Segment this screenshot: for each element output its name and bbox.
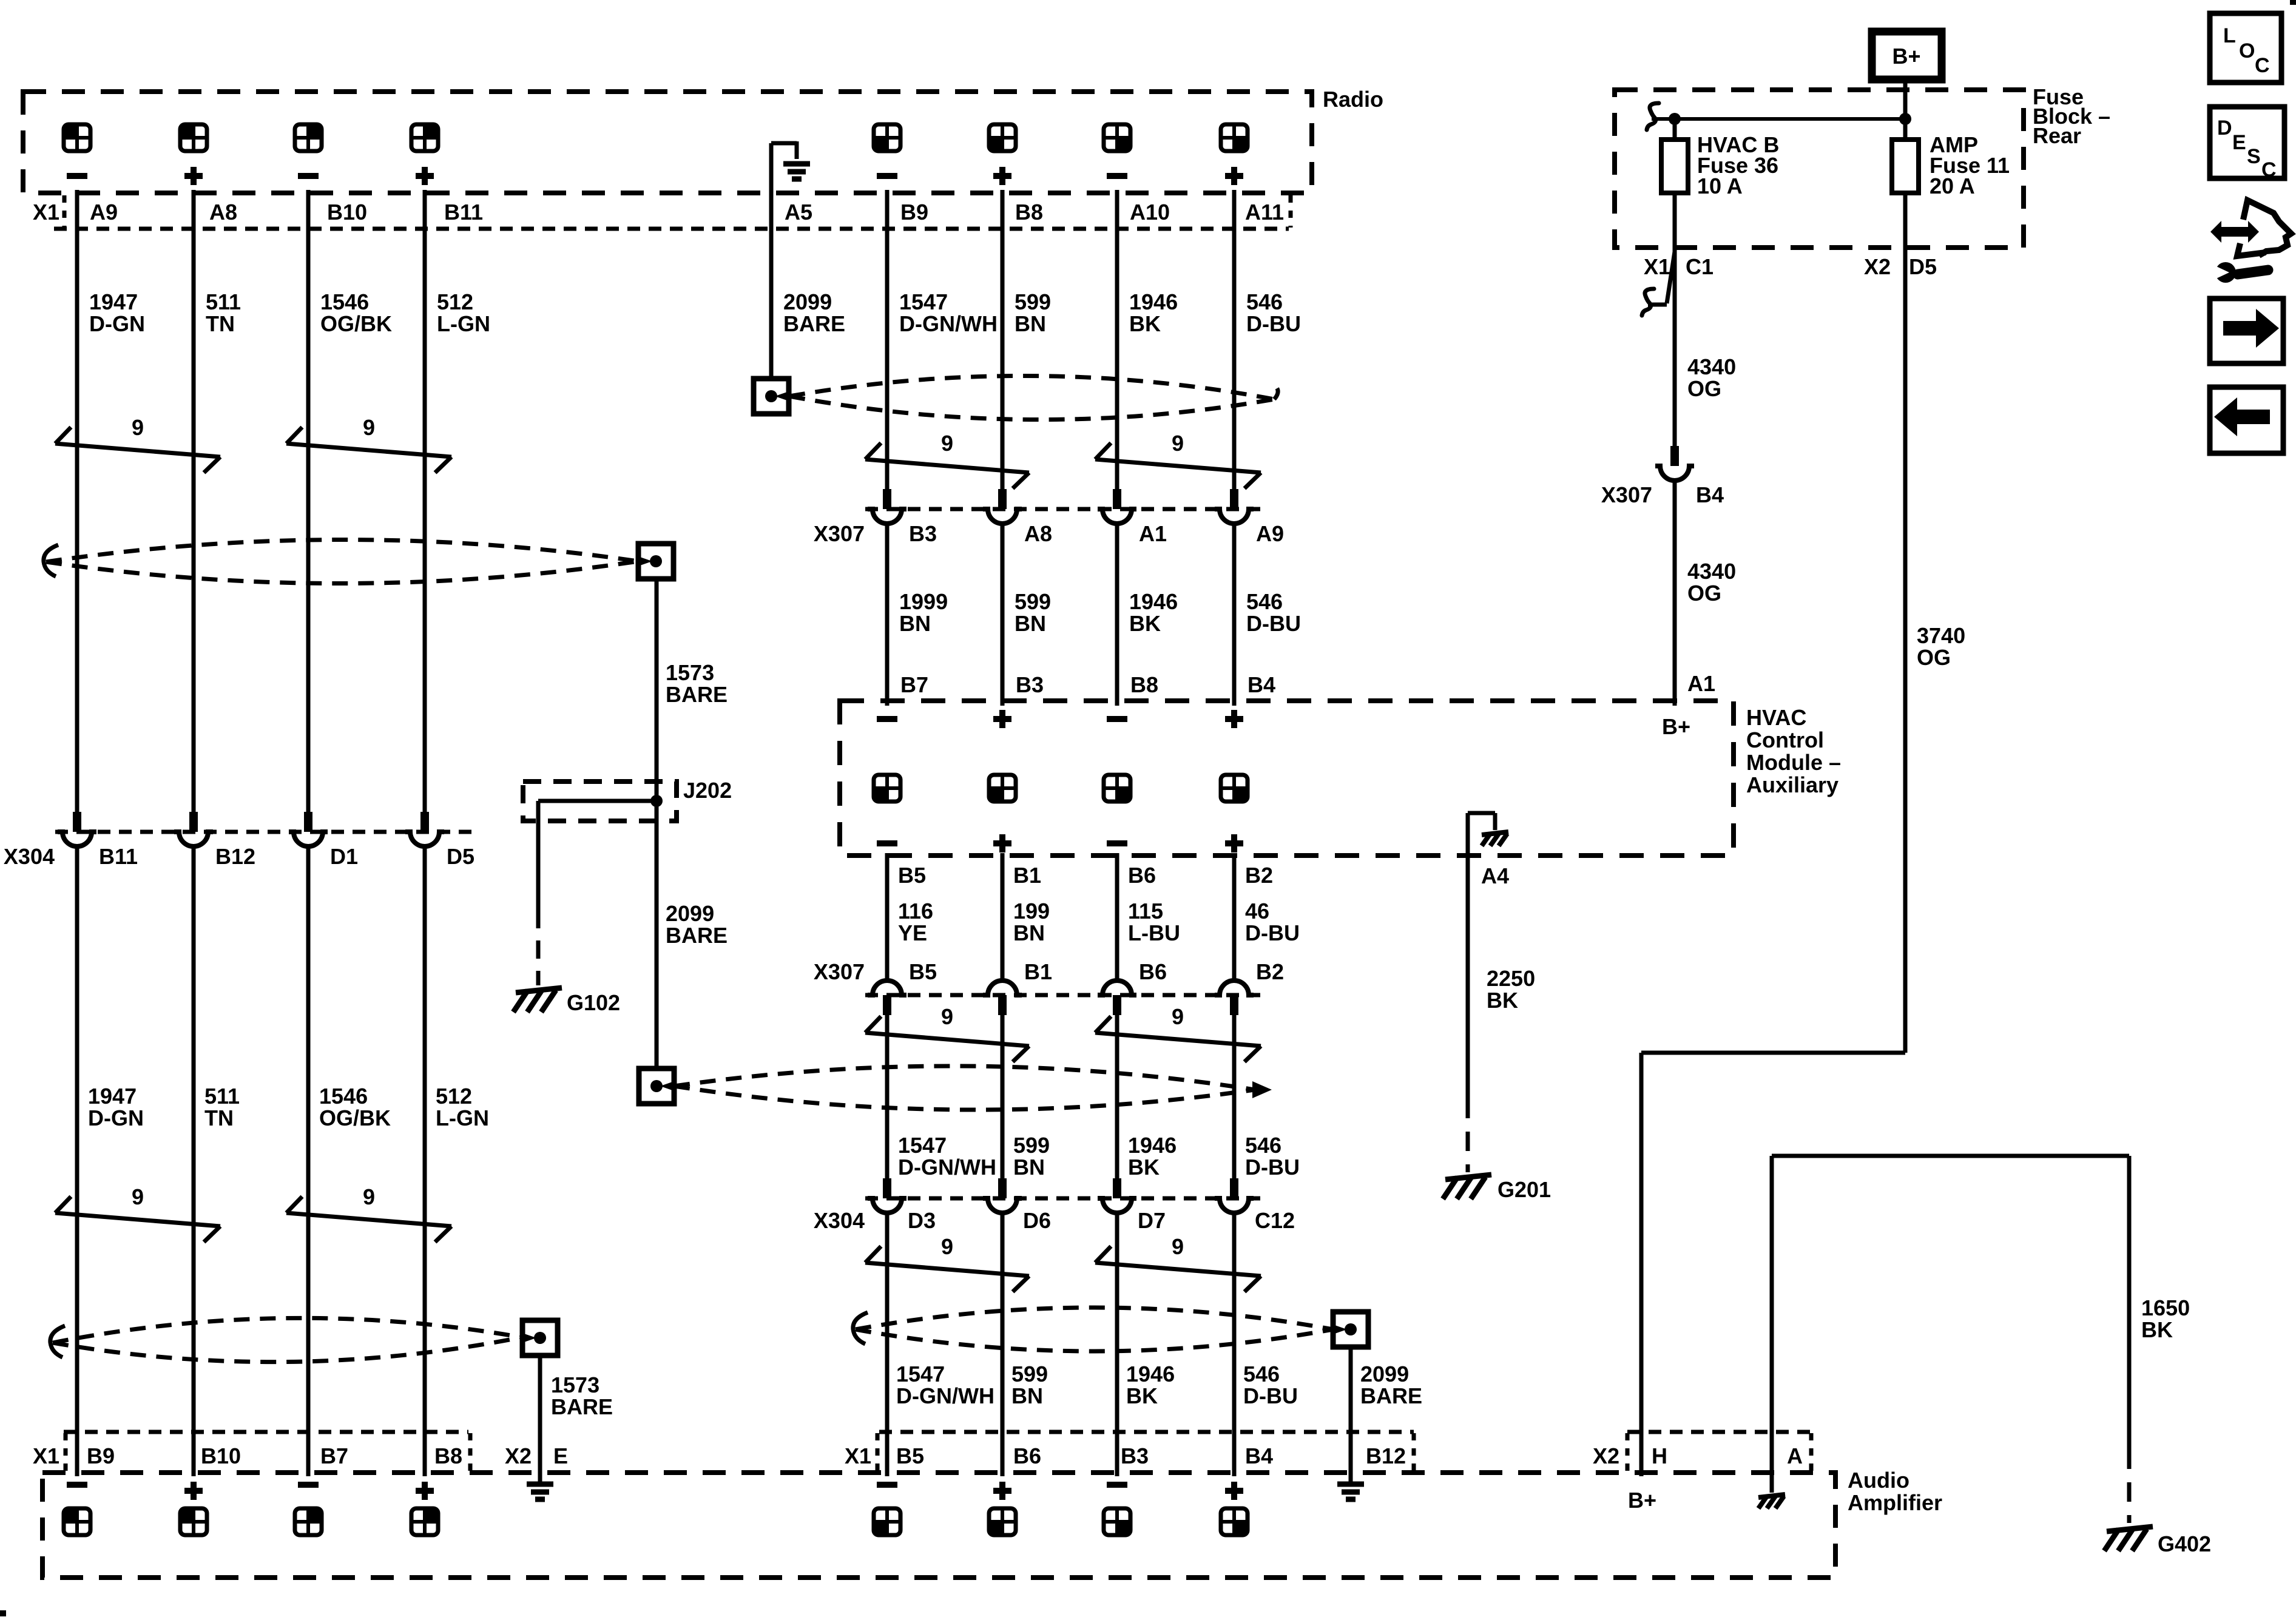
component box Radio (dashed): [23, 92, 1312, 193]
svg-text:1573: 1573: [551, 1372, 599, 1397]
wire mid col 1 seg4: [885, 1015, 890, 1178]
svg-text:O: O: [2239, 39, 2255, 62]
svg-text:BK: BK: [1126, 1383, 1158, 1408]
connector strip X1 (radio) dashed line: [54, 227, 1289, 231]
speaker icon amp L3: [295, 1508, 322, 1535]
wire left col 2 upper: [192, 190, 196, 812]
wire 2099 BARE to pin B12: [1349, 1347, 1353, 1482]
svg-text:OG: OG: [1917, 645, 1951, 670]
splice box with dot (2099 BARE): [754, 379, 789, 414]
wire mid col 2 seg2: [1001, 524, 1005, 706]
svg-text:199: 199: [1013, 899, 1050, 923]
speaker pin icon radio L1: [64, 124, 90, 151]
svg-text:20 A: 20 A: [1930, 174, 1975, 198]
icon wrench pointer: [2210, 221, 2259, 243]
svg-text:B8: B8: [1015, 200, 1043, 224]
svg-text:A8: A8: [209, 200, 237, 224]
svg-text:9: 9: [1172, 1234, 1184, 1259]
splice J202 box (dashed): [523, 781, 677, 821]
wire into HVAC B fuse: [1673, 119, 1677, 141]
svg-text:1946: 1946: [1129, 589, 1178, 614]
polarity - HVAC bottom 1: [877, 840, 897, 846]
inline connector X304 pin 2: [189, 812, 198, 832]
svg-text:B7: B7: [900, 672, 928, 697]
bundle count 9 mid row2 pair2: [1095, 1033, 1261, 1046]
speaker pin icon radio M4: [1221, 124, 1248, 151]
polarity + radio L4: [416, 173, 434, 179]
splice arrow into dot: [521, 1332, 536, 1343]
svg-text:D-GN: D-GN: [89, 311, 145, 336]
svg-text:X1: X1: [1644, 254, 1670, 279]
wire mid col 4 seg3: [1232, 853, 1237, 981]
svg-text:B6: B6: [1128, 863, 1156, 888]
svg-text:B5: B5: [909, 959, 937, 984]
svg-text:9: 9: [941, 1234, 953, 1259]
svg-text:Control: Control: [1746, 727, 1824, 752]
speaker icon amp M4: [1221, 1508, 1248, 1535]
page corner mark top-right: [2290, 0, 2296, 5]
svg-text:B6: B6: [1013, 1443, 1041, 1468]
svg-text:4340: 4340: [1687, 354, 1736, 379]
speaker pin icon radio L2: [180, 124, 207, 151]
svg-text:B8: B8: [434, 1443, 462, 1468]
svg-text:D-GN/WH: D-GN/WH: [899, 311, 998, 336]
svg-text:1999: 1999: [899, 589, 948, 614]
bus wire inside fuse block: [1652, 117, 1905, 121]
svg-text:A8: A8: [1024, 521, 1052, 546]
ellipse tip curl left row1: [44, 545, 58, 576]
svg-text:D-BU: D-BU: [1246, 611, 1301, 636]
svg-text:YE: YE: [898, 920, 927, 945]
svg-text:BK: BK: [2141, 1317, 2173, 1342]
svg-text:G402: G402: [2158, 1531, 2211, 1556]
svg-text:B3: B3: [1121, 1443, 1149, 1468]
svg-text:B9: B9: [900, 200, 928, 224]
svg-text:L-GN: L-GN: [437, 311, 490, 336]
svg-text:X1: X1: [33, 200, 59, 224]
svg-text:116: 116: [898, 899, 933, 923]
svg-text:599: 599: [1013, 1133, 1050, 1158]
wire left col 2 lower: [192, 846, 196, 1476]
polarity - HVAC top 3: [1107, 716, 1127, 722]
ellipse arrow tip mid row2: [1252, 1081, 1272, 1098]
svg-text:D6: D6: [1023, 1208, 1051, 1233]
wire left col 1 lower: [75, 846, 79, 1476]
twisted pair ellipse left row1: [46, 539, 638, 562]
svg-text:Audio: Audio: [1848, 1468, 1909, 1493]
svg-text:OG: OG: [1687, 581, 1721, 606]
inline connector X307 row1 pin 4: [1230, 489, 1238, 509]
chassis ground at amp pin A: [1770, 1476, 1774, 1493]
inline connector X304 pin 4: [420, 812, 429, 832]
bundle count 9 mid row3 pair2: [1095, 1263, 1261, 1276]
svg-text:L-GN: L-GN: [436, 1106, 489, 1130]
svg-text:1547: 1547: [899, 289, 948, 314]
svg-text:J202: J202: [683, 778, 732, 803]
radio internal ground at A5: [769, 143, 774, 194]
inline connector X307 dashed line row1: [865, 507, 1261, 511]
wire mid col 3 seg3: [1115, 853, 1119, 981]
inline connector X304 dashed line (mid): [865, 1197, 1261, 1201]
speaker icon amp M1: [874, 1508, 900, 1535]
svg-text:B5: B5: [898, 863, 926, 888]
component box Audio Amplifier (dashed): [42, 1473, 1835, 1578]
svg-text:9: 9: [941, 1004, 953, 1029]
svg-text:OG/BK: OG/BK: [320, 311, 392, 336]
polarity + radio L2: [184, 173, 203, 179]
svg-text:X2: X2: [1864, 254, 1891, 279]
svg-text:1946: 1946: [1129, 289, 1178, 314]
speaker icon HVAC 2: [989, 775, 1016, 802]
wire 1573 BARE (J202 column): [655, 579, 659, 1068]
svg-text:BARE: BARE: [551, 1394, 613, 1419]
svg-text:B9: B9: [87, 1443, 115, 1468]
inline connector X307 B4: [1670, 446, 1679, 466]
icon box arrow right: [2210, 299, 2283, 363]
svg-text:D-GN/WH: D-GN/WH: [898, 1155, 996, 1180]
speaker icon HVAC 1: [874, 775, 900, 802]
svg-text:C: C: [2255, 54, 2270, 77]
svg-text:9: 9: [363, 415, 375, 440]
svg-text:2099: 2099: [1360, 1362, 1409, 1386]
speaker icon amp M2: [989, 1508, 1016, 1535]
wire left col 1 upper: [75, 190, 79, 812]
wire mid col 4 seg4: [1232, 1015, 1237, 1178]
svg-text:1947: 1947: [89, 289, 138, 314]
connector strip X2 right cap: [1809, 1433, 1814, 1471]
svg-text:B8: B8: [1130, 672, 1158, 697]
polarity - HVAC bottom 3: [1107, 840, 1127, 846]
polarity + HVAC top 4: [1225, 716, 1243, 722]
svg-text:A10: A10: [1130, 200, 1170, 224]
inline connector X304 pin 1: [73, 812, 81, 832]
svg-text:X1: X1: [33, 1443, 59, 1468]
svg-text:2099: 2099: [783, 289, 832, 314]
splice box with dot (ellipse mid row2 left): [639, 1068, 674, 1104]
svg-text:A1: A1: [1687, 671, 1715, 696]
ellipse tip hook mid row1: [1272, 383, 1278, 399]
speaker icon HVAC 3: [1104, 775, 1130, 802]
svg-text:B+: B+: [1628, 1488, 1656, 1513]
svg-text:D-BU: D-BU: [1245, 920, 1300, 945]
svg-text:10 A: 10 A: [1697, 174, 1743, 198]
inline connector X307 row2 pin 2: [983, 981, 1022, 995]
svg-text:X304: X304: [814, 1208, 865, 1233]
bundle count 9 mid row1 pair2: [1095, 459, 1261, 473]
svg-text:TN: TN: [206, 311, 235, 336]
svg-text:1946: 1946: [1126, 1362, 1175, 1386]
svg-text:C: C: [2261, 158, 2277, 181]
svg-text:B4: B4: [1248, 672, 1275, 697]
svg-text:D5: D5: [1909, 254, 1937, 279]
svg-text:1650: 1650: [2141, 1295, 2190, 1320]
svg-text:E: E: [553, 1443, 568, 1468]
svg-text:BN: BN: [1011, 1383, 1043, 1408]
svg-text:2099: 2099: [666, 901, 714, 926]
page continuation curl (bus left end): [1647, 103, 1659, 130]
bundle count 9 mid row2 pair1: [865, 1033, 1029, 1046]
chassis ground G102: [516, 988, 562, 993]
svg-text:BARE: BARE: [783, 311, 845, 336]
inline connector X307 row2 pin 4: [1215, 981, 1254, 995]
bundle count 9 mid row3 pair1: [865, 1263, 1029, 1276]
svg-text:BN: BN: [1015, 611, 1046, 636]
svg-text:HVAC: HVAC: [1746, 705, 1806, 730]
svg-text:D-BU: D-BU: [1245, 1155, 1300, 1180]
svg-text:B3: B3: [1016, 672, 1044, 697]
svg-text:S: S: [2247, 145, 2261, 168]
ellipse tip curl left row2: [50, 1326, 65, 1357]
polarity - HVAC top 1: [877, 716, 897, 722]
inline connector X307 dashed line row2: [865, 993, 1261, 998]
connector strip X1 right cap: [1289, 195, 1293, 228]
wire mid col 2 seg4: [1001, 1015, 1005, 1178]
svg-text:A5: A5: [785, 200, 812, 224]
polarity - radio L3: [298, 173, 319, 179]
wire left col 3 upper: [306, 190, 311, 812]
svg-text:B11: B11: [444, 200, 483, 224]
svg-text:546: 546: [1246, 589, 1283, 614]
svg-text:B2: B2: [1245, 863, 1273, 888]
polarity - amp L1: [67, 1482, 87, 1488]
svg-text:B7: B7: [320, 1443, 348, 1468]
speaker icon amp L2: [180, 1508, 207, 1535]
polarity + HVAC bottom 4: [1225, 840, 1243, 846]
svg-text:D-GN: D-GN: [88, 1106, 144, 1130]
svg-text:BN: BN: [1013, 1155, 1045, 1180]
svg-text:1547: 1547: [898, 1133, 947, 1158]
svg-text:L-BU: L-BU: [1128, 920, 1180, 945]
earth ground at amp pin B12: [1337, 1482, 1364, 1487]
speaker pin icon radio M3: [1104, 124, 1130, 151]
connector strip X1 mid (amp) dashed line: [879, 1430, 1414, 1434]
splice box with dot (1573 BARE origin): [638, 544, 674, 579]
svg-text:B6: B6: [1139, 959, 1167, 984]
fuse AMP Fuse 11 20A: [1892, 140, 1919, 193]
inline connector X307 row2 pin 1: [868, 981, 907, 995]
svg-text:X304: X304: [4, 844, 55, 869]
wire 2250 BK to G201: [1466, 853, 1470, 1099]
splice box with dot (2099 BARE bottom): [1333, 1312, 1368, 1347]
svg-text:E: E: [2232, 131, 2246, 154]
page corner mark bottom-left: [0, 1610, 6, 1616]
inline connector X304 mid pin 1: [883, 1178, 891, 1198]
inline connector X304 pin 3: [304, 812, 312, 832]
connector strip amp left cap: [64, 1433, 68, 1471]
wire 4340 OG lower: [1673, 481, 1677, 706]
twisted pair ellipse left row2: [53, 1318, 522, 1343]
chassis ground G402: [2107, 1527, 2153, 1531]
inline connector X307 row1 pin 3: [1113, 489, 1121, 509]
bundle count 9 mid row1 pair1: [865, 459, 1029, 473]
svg-text:115: 115: [1128, 899, 1163, 923]
svg-text:Auxiliary: Auxiliary: [1746, 772, 1838, 797]
inline connector X304 mid pin 4: [1230, 1178, 1238, 1198]
polarity + HVAC bottom 2: [993, 840, 1011, 846]
svg-text:B5: B5: [896, 1443, 924, 1468]
speaker pin icon radio L3: [295, 124, 322, 151]
polarity + amp L2: [184, 1488, 203, 1494]
svg-text:B12: B12: [1366, 1443, 1406, 1468]
svg-text:BK: BK: [1129, 311, 1161, 336]
icon box arrow left: [2210, 387, 2283, 453]
polarity + HVAC top 2: [993, 716, 1011, 722]
speaker pin icon radio M1: [874, 124, 900, 151]
svg-text:X2: X2: [505, 1443, 532, 1468]
wire 1573 BARE to pin E: [538, 1355, 542, 1482]
connector strip X2 (amp right) dashed line: [1627, 1430, 1811, 1434]
inline connector X307 row1 pin 2: [998, 489, 1007, 509]
splice arrow into dot E1: [775, 391, 791, 402]
branch wire to other page (C1): [1667, 252, 1675, 303]
svg-text:511: 511: [204, 1084, 240, 1109]
wire mid col 2 seg3: [1001, 853, 1005, 981]
svg-text:TN: TN: [204, 1106, 234, 1130]
bundle count 9 left row2 pair1: [55, 1213, 220, 1226]
speaker icon amp L4: [411, 1508, 438, 1535]
component box Fuse Block - Rear (dashed): [1615, 90, 2024, 248]
wire mid col 2 seg1: [1001, 190, 1005, 489]
polarity + amp M4: [1225, 1488, 1243, 1494]
svg-text:G102: G102: [567, 990, 620, 1015]
ellipse tip curl mid row3: [853, 1312, 868, 1344]
svg-text:Rear: Rear: [2033, 123, 2081, 148]
connector strip amp right cap: [1412, 1433, 1416, 1471]
polarity - amp M1: [877, 1482, 897, 1488]
svg-text:B1: B1: [1024, 959, 1052, 984]
wire mid col 4 seg5: [1232, 1214, 1237, 1476]
svg-text:X1: X1: [845, 1443, 871, 1468]
svg-text:B11: B11: [99, 844, 138, 869]
svg-text:A: A: [1787, 1443, 1803, 1468]
svg-text:L: L: [2223, 24, 2236, 47]
svg-text:B10: B10: [201, 1443, 241, 1468]
svg-text:1573: 1573: [666, 660, 714, 685]
speaker icon amp M3: [1104, 1508, 1130, 1535]
twisted pair ellipse mid row3: [856, 1308, 1333, 1329]
svg-text:D5: D5: [447, 844, 474, 869]
svg-text:D-BU: D-BU: [1243, 1383, 1298, 1408]
junction dot at AMP fuse: [1899, 113, 1911, 125]
wire mid col 3 seg5: [1115, 1214, 1119, 1476]
svg-text:C1: C1: [1686, 254, 1714, 279]
svg-text:A9: A9: [1256, 521, 1284, 546]
wire branch J202 to G102: [538, 799, 657, 803]
earth ground at amp pin E: [527, 1482, 553, 1487]
svg-text:512: 512: [437, 289, 473, 314]
svg-text:1547: 1547: [896, 1362, 945, 1386]
svg-text:D-BU: D-BU: [1246, 311, 1301, 336]
svg-text:X307: X307: [814, 959, 865, 984]
svg-text:9: 9: [363, 1184, 375, 1209]
wire mid col 2 seg5: [1001, 1214, 1005, 1476]
svg-text:X2: X2: [1593, 1443, 1619, 1468]
splice arrow into dot E0: [636, 556, 652, 567]
svg-text:X307: X307: [1601, 482, 1652, 507]
svg-text:9: 9: [941, 431, 953, 456]
svg-text:B3: B3: [909, 521, 937, 546]
svg-text:Module –: Module –: [1746, 750, 1841, 775]
inline connector X304 mid pin 3: [1113, 1178, 1121, 1198]
wire mid col 4 seg2: [1232, 524, 1237, 706]
wire 2099 BARE from radio A5: [769, 194, 774, 379]
svg-text:9: 9: [132, 415, 144, 440]
svg-text:C12: C12: [1255, 1208, 1295, 1233]
wire left col 4 upper: [423, 190, 427, 812]
svg-text:B4: B4: [1245, 1443, 1273, 1468]
wire 1650 BK: [1770, 1156, 1774, 1476]
svg-text:OG: OG: [1687, 376, 1721, 401]
speaker icon amp L1: [64, 1508, 90, 1535]
speaker icon HVAC 4: [1221, 775, 1248, 802]
bundle count 9 left row2 pair2: [286, 1213, 451, 1226]
polarity - radio L1: [67, 173, 87, 179]
svg-text:B+: B+: [1662, 714, 1690, 739]
svg-text:X307: X307: [814, 521, 865, 546]
wire mid col 1 seg2: [885, 524, 890, 706]
twisted pair ellipse mid row2: [674, 1066, 1255, 1090]
svg-text:B10: B10: [327, 200, 367, 224]
svg-text:BK: BK: [1128, 1155, 1160, 1180]
svg-text:D3: D3: [908, 1208, 936, 1233]
splice box with dot (1573 BARE lower): [522, 1320, 558, 1355]
connector strip amp cap 3: [876, 1433, 880, 1471]
svg-text:A1: A1: [1139, 521, 1167, 546]
polarity + radio M4: [1225, 173, 1243, 179]
icon box DESC: [2210, 107, 2284, 178]
splice arrow into dot mid: [1331, 1324, 1347, 1335]
svg-text:D: D: [2217, 116, 2232, 140]
svg-text:B2: B2: [1256, 959, 1284, 984]
svg-text:BARE: BARE: [1360, 1383, 1422, 1408]
splice arrow into dot E2: [660, 1081, 676, 1092]
svg-text:3740: 3740: [1917, 623, 1965, 648]
svg-text:BN: BN: [1013, 920, 1045, 945]
svg-text:46: 46: [1245, 899, 1269, 923]
connector strip X1 left cap: [62, 195, 67, 228]
svg-text:H: H: [1652, 1443, 1667, 1468]
wire left col 4 lower: [423, 846, 427, 1476]
inline connector X304 dashed line (left): [55, 830, 476, 834]
svg-text:546: 546: [1246, 289, 1283, 314]
svg-text:B4: B4: [1696, 482, 1724, 507]
svg-text:A11: A11: [1245, 200, 1284, 224]
svg-text:BARE: BARE: [666, 682, 728, 707]
svg-text:546: 546: [1243, 1362, 1280, 1386]
svg-text:B+: B+: [1892, 44, 1920, 69]
svg-text:4340: 4340: [1687, 559, 1736, 584]
power feed B+ box: [1872, 32, 1942, 79]
svg-text:G201: G201: [1497, 1177, 1551, 1202]
svg-text:599: 599: [1015, 289, 1051, 314]
svg-text:A4: A4: [1481, 863, 1509, 888]
wire mid col 3 seg4: [1115, 1015, 1119, 1178]
polarity + radio M2: [993, 173, 1011, 179]
wire AMP fuse to box edge: [1903, 193, 1908, 248]
bundle count 9 left row1 pair2: [286, 444, 451, 457]
svg-text:511: 511: [206, 289, 241, 314]
polarity - radio M3: [1107, 173, 1127, 179]
wire mid col 3 seg1: [1115, 190, 1119, 489]
connector strip amp cap 2: [468, 1433, 473, 1471]
svg-text:OG/BK: OG/BK: [319, 1106, 391, 1130]
svg-text:Radio: Radio: [1323, 87, 1383, 112]
svg-text:B12: B12: [215, 844, 255, 869]
svg-text:BK: BK: [1487, 988, 1518, 1013]
HVAC internal ground at A4: [1466, 813, 1470, 853]
svg-text:D-GN/WH: D-GN/WH: [896, 1383, 994, 1408]
svg-text:1546: 1546: [319, 1084, 368, 1109]
